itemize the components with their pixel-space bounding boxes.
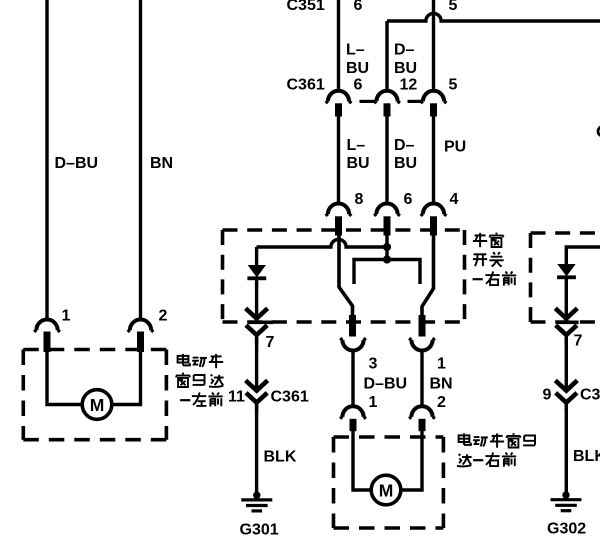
pin bar switch bottom pin 1 [419,315,426,337]
wire L-BU to switch pin 8 [337,116,340,204]
pin bar motor pin 1 [350,419,357,431]
wire feed into right box [566,247,600,265]
connector cup switch pin 6 [374,204,400,216]
svg-text:1: 1 [62,308,71,325]
svg-text:12: 12 [400,77,418,94]
pin bar C361 pin 12 [384,103,391,116]
wire D-BU switch to motor pin 1 [351,351,354,407]
svg-text:M: M [379,480,394,500]
svg-text:D–: D– [394,42,415,59]
label motor left front (CJK) [176,354,224,407]
motor box left front (dashed) [23,350,166,440]
svg-text:C361: C361 [271,389,309,406]
svg-text:L–: L– [347,137,366,154]
wire BLK to G302 [565,403,568,494]
svg-text:D–BU: D–BU [364,376,408,393]
svg-text:PU: PU [444,139,466,156]
svg-text:BU: BU [394,60,417,77]
motor M1 left front window motor [82,390,112,420]
junction node upper [383,243,391,251]
wire BN switch to motor pin 2 [420,351,423,407]
inline connector C361 chevron V [246,380,268,390]
svg-text:G301: G301 [240,522,279,539]
wire motor right leg 1 [353,431,371,490]
wire from C351 pin 5 [432,0,435,92]
inline connector C361 chevron Y [246,393,267,412]
wire 7 to C361 inline [255,335,258,391]
wire motor right leg 2 [401,431,422,490]
connector cup pin 2 left motor [128,320,154,332]
svg-text:6: 6 [404,191,413,208]
wire diode to connector 7 right [565,278,568,318]
wire D-BU horizontal feed with crossover hump [387,13,600,21]
svg-text:C351: C351 [287,0,325,14]
svg-text:BU: BU [347,155,370,172]
diode in switch left [255,247,258,266]
wire D-BU vertical to C361 pin 12 [385,21,388,92]
svg-text:BU: BU [394,155,417,172]
cup motor pin 2 [409,406,435,418]
svg-text:D–: D– [394,137,415,154]
svg-text:3: 3 [369,356,378,373]
connector 7 right chevron Y [556,325,577,344]
wire BLK to G301 [255,403,258,494]
pin bar 2 left motor [137,332,144,353]
wire diode to connector 7 [255,279,258,318]
right partial box (dashed) [531,233,600,322]
connector 7 chevron Y [246,325,267,344]
wire staple contact bar [354,260,420,285]
svg-text:2: 2 [159,308,168,325]
svg-text:8: 8 [355,191,364,208]
wire D-BU left front motor feed [45,0,48,320]
pin bar 1 left motor [44,332,51,353]
svg-text:11: 11 [228,389,245,406]
pin bar motor pin 2 [419,419,426,431]
label motor right front (CJK) [457,433,535,467]
svg-text:7: 7 [266,334,275,351]
wire L-BU from C351 pin 6 [337,0,340,92]
cup below switch pin 1 [409,338,435,350]
connector cup pin 1 left motor [34,320,60,332]
svg-text:6: 6 [354,77,363,94]
connector cup switch pin 8 [326,204,352,216]
inline connector right chevron V [555,380,577,390]
label window switch right front (CJK) [473,233,517,286]
wire PU to switch pin 4 [432,116,435,204]
wire D-BU to switch pin 6 [385,116,388,204]
ground G302 [551,491,582,510]
svg-text:BN: BN [150,155,173,172]
connector C361 cup pin 5 [421,91,447,103]
pin bar switch pin 4 [430,216,437,235]
wire BN left front motor feed [139,0,142,320]
svg-text:L–: L– [346,42,365,59]
pin bar switch pin 6 [384,216,391,235]
svg-text:BU: BU [346,60,369,77]
wire switch pin6 stub [385,235,388,260]
svg-text:5: 5 [449,77,458,94]
connector cup switch pin 4 [421,204,447,216]
switch blade left [339,233,353,317]
svg-text:6: 6 [354,0,363,14]
cup below switch pin 3 [340,338,366,350]
svg-text:G302: G302 [547,521,586,538]
connector C361 cup pin 6 [326,91,352,103]
ground G301 [241,492,272,511]
pin bar switch bottom pin 3 [349,315,356,337]
svg-text:7: 7 [574,333,583,350]
svg-text:C36: C36 [580,387,600,404]
wire motor left leg 2 [112,352,141,405]
C361 connector dashes [360,100,422,103]
svg-text:2: 2 [437,394,446,411]
svg-text:C361: C361 [287,77,325,94]
wire motor left leg 1 [47,352,82,405]
svg-text:5: 5 [449,0,458,14]
motor box right front (dashed) [334,437,444,528]
partial C glyph at right edge [598,127,600,136]
wire to inline connector right [565,335,568,391]
cup motor pin 1 [340,406,366,418]
svg-text:4: 4 [450,191,459,208]
connector 7 chevron V [246,308,268,318]
motor M2 right front window motor [371,475,401,505]
svg-text:D–BU: D–BU [55,155,99,172]
pin bar C361 pin 5 [430,103,437,116]
svg-text:9: 9 [543,387,552,404]
pin bar C361 pin 6 [335,103,342,116]
pin bar switch pin 8 [335,216,342,235]
svg-text:M: M [90,395,105,415]
switch box right front window (dashed) [223,230,465,322]
junction node lower [383,255,391,263]
inline connector right chevron Y [556,393,577,412]
svg-text:BLK: BLK [264,449,297,466]
switch blade right [422,233,434,317]
svg-text:1: 1 [369,394,378,411]
connector 7 bold bar [248,321,273,325]
connector C361 cup pin 12 [374,91,400,103]
connector 7 right chevron V [555,308,577,318]
svg-text:BN: BN [430,376,453,393]
connector 7 right bold bar [557,321,579,325]
diode in right box [557,264,576,279]
wire switch internal horizontal with hump over pin8 wire [257,239,388,247]
svg-text:1: 1 [437,356,446,373]
svg-text:BLK: BLK [573,448,600,465]
